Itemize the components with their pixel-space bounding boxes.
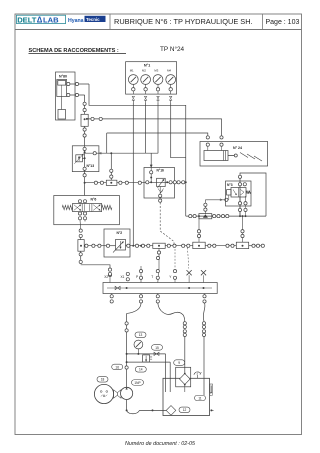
svg-text:N°13: N°13 <box>87 164 95 168</box>
svg-text:18: 18 <box>101 378 105 382</box>
svg-text:N°16: N°16 <box>157 169 165 173</box>
svg-text:1NP: 1NP <box>134 381 140 385</box>
svg-text:14: 14 <box>139 368 143 372</box>
svg-text:M1: M1 <box>130 69 134 73</box>
svg-text:M2: M2 <box>142 69 146 73</box>
svg-text:Numéro de document : 02-05: Numéro de document : 02-05 <box>125 441 196 447</box>
svg-text:N°1: N°1 <box>144 64 150 68</box>
svg-text:Page : 103: Page : 103 <box>266 19 300 26</box>
svg-text:Tecnic: Tecnic <box>86 17 100 22</box>
svg-text:X1: X1 <box>121 275 125 279</box>
svg-text:N° 24: N° 24 <box>233 146 242 150</box>
svg-text:11: 11 <box>198 396 202 400</box>
svg-text:X2: X2 <box>104 275 108 279</box>
svg-text:M4: M4 <box>167 69 171 73</box>
svg-text:T: T <box>151 275 153 279</box>
svg-text:13: 13 <box>139 333 143 337</box>
svg-text:M3: M3 <box>154 69 158 73</box>
svg-text:9: 9 <box>178 361 180 365</box>
svg-text:N°6: N°6 <box>91 198 97 202</box>
svg-text:RUBRIQUE N°6 : TP HYDRAULIQUE: RUBRIQUE N°6 : TP HYDRAULIQUE SH. <box>114 17 253 26</box>
svg-text:Hyana: Hyana <box>68 18 84 24</box>
svg-text:TP N°24: TP N°24 <box>160 45 185 53</box>
svg-text:SCHEMA DE RACCORDEMENTS :: SCHEMA DE RACCORDEMENTS : <box>29 48 119 54</box>
svg-text:P: P <box>136 275 138 279</box>
svg-text:N°3: N°3 <box>227 183 233 187</box>
svg-text:16: 16 <box>115 365 119 369</box>
svg-text:N°80: N°80 <box>59 75 67 79</box>
svg-text:N°2: N°2 <box>117 231 123 235</box>
svg-text:15: 15 <box>155 346 159 350</box>
svg-text:12: 12 <box>183 408 187 412</box>
